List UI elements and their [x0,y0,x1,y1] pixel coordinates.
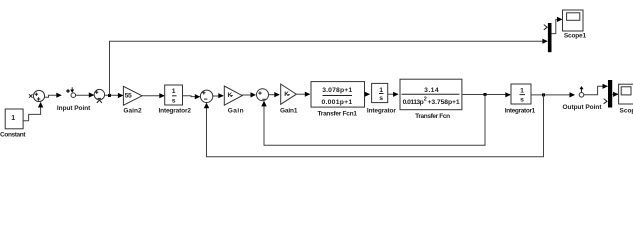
mux block Mux2 [608,80,612,108]
wire Mux1 to Scope1 [552,17,563,34]
wire inner feedback loop from Transfer Fcn output to Sum4 [261,95,485,146]
wire outer feedback loop from Integrator1 output to Sum3 [204,95,544,157]
svg-text:0.001p+1: 0.001p+1 [321,99,352,106]
unconnected port marker on Sum2 bottom [97,100,102,103]
junction node after Integrator1 [542,93,545,96]
wire Constant to Sum1 [23,102,43,121]
linearization input point marker Input Point [57,87,91,112]
sum S4 [257,89,269,101]
svg-text:Output Point: Output Point [563,104,603,111]
svg-text:1: 1 [520,87,524,94]
svg-text:Constant: Constant [0,132,26,139]
integrator block Integrator2 [158,85,191,115]
gain block Gain2 [123,86,142,114]
svg-text:s: s [379,95,383,102]
wire Integrator2 to Sum3 [183,94,201,99]
wire Gain2 to Integrator2 [142,93,165,98]
svg-text:Transfer Fcn1: Transfer Fcn1 [317,110,357,117]
svg-text:1: 1 [379,87,383,94]
sum S2 [94,89,104,99]
linearization output point marker Output Point [563,86,603,111]
svg-text:3.14: 3.14 [424,87,439,94]
svg-text:Integrator2: Integrator2 [158,108,191,115]
wire Integrator1 to Output Point with branch node [531,92,575,97]
svg-text:1: 1 [11,115,15,122]
wire Output Point to Mux2 [584,84,608,95]
wire Mux2 to Scope [612,92,618,97]
svg-text:2: 2 [424,97,427,103]
svg-text:s: s [520,96,524,103]
svg-text:Integrator: Integrator [367,107,396,114]
mux block Mux1 [548,23,552,52]
svg-text:55: 55 [125,92,132,99]
wire Gain to Sum4 [242,92,256,97]
svg-text:+3.758p+1: +3.758p+1 [428,99,460,106]
transfer function block Transfer Fcn1 [311,82,365,118]
svg-text:Input Point: Input Point [57,105,91,112]
svg-text:Integrator1: Integrator1 [505,108,536,115]
transfer function block Transfer Fcn [400,79,462,120]
wire Sum1 to Input Point [45,93,62,98]
wire branch up to top line [110,41,548,95]
integrator block Integrator [367,83,396,114]
unconnected port marker on Mux2 lower input [604,99,607,104]
unconnected port marker on Mux1 upper input [544,25,547,30]
svg-text:Scope1: Scope1 [564,33,587,40]
gain block Gain1 [280,84,298,114]
junction node after Sum2 [108,94,111,97]
sum S1 [33,90,44,101]
svg-text:Transfer Fcn: Transfer Fcn [415,113,450,120]
integrator block Integrator1 [505,84,536,115]
junction node after Transfer Fcn [484,93,487,96]
svg-text:1: 1 [172,88,176,95]
wire Input Point to Sum2 [76,92,95,97]
svg-text:Gain2: Gain2 [123,108,142,115]
wire Sum3 to Gain [213,93,224,98]
unconnected port marker on Sum1 left [29,94,33,98]
wire Sum4 to Gain1 [269,92,280,97]
svg-text:s: s [172,97,176,104]
constant block Constant [0,109,26,139]
svg-text:Gain: Gain [228,108,244,115]
wire Transfer Fcn to Integrator1 with branch node [462,92,511,97]
scope block Scope [619,84,633,114]
arrowhead into Mux1 [542,39,548,44]
wire Transfer Fcn1 to Integrator [365,92,371,97]
svg-text:Scope: Scope [620,107,633,114]
svg-text:3.078p+1: 3.078p+1 [322,87,352,94]
gain block Gain [224,86,243,115]
scope block Scope1 [563,10,587,40]
wire Gain1 to Transfer Fcn1 [296,92,310,97]
wire Sum2 to Gain2 [105,93,124,98]
sum S3 [200,90,212,102]
wire Integrator to Transfer Fcn [388,92,399,97]
svg-text:0.0113p: 0.0113p [403,99,424,106]
svg-text:Gain1: Gain1 [280,107,298,114]
